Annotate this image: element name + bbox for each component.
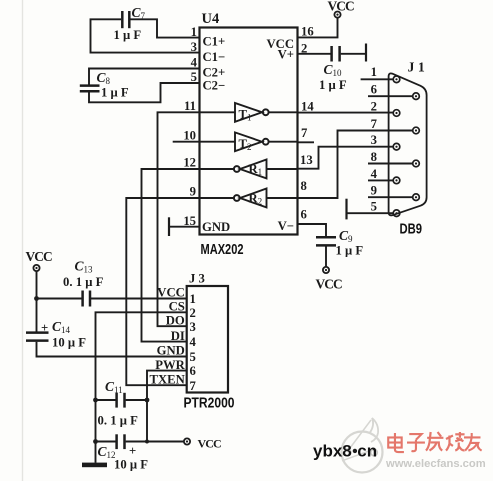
wire pin13 to DB9 pin3 [298, 147, 394, 169]
wire pin12 to J3 DI [142, 169, 200, 342]
svg-text:10 μ F: 10 μ F [114, 458, 148, 472]
DB9 pin 6 contact [413, 93, 420, 100]
svg-text:3: 3 [190, 320, 196, 334]
svg-text:1 μ F: 1 μ F [101, 86, 129, 100]
U4 pin label C1+ [203, 35, 226, 49]
C12 reference label [98, 444, 116, 460]
svg-text:J 3: J 3 [189, 272, 205, 286]
wire R2 input to pin8 [267, 197, 298, 199]
J3 pin number 3 [190, 320, 196, 334]
svg-text:T1: T1 [239, 108, 252, 123]
buffer T2 [235, 132, 269, 151]
receiver R2 [234, 189, 267, 208]
DB9 pin 2 contact [393, 110, 400, 117]
capacitor C12 [117, 434, 125, 449]
U4 pin label C2+ [203, 66, 226, 80]
pin number 5 [191, 70, 197, 84]
capacitor C7 [122, 11, 129, 28]
svg-text:ybx8: ybx8 [313, 442, 352, 461]
wire C9 to VCC terminal [325, 247, 327, 267]
svg-text:T2: T2 [239, 137, 252, 152]
svg-text:6: 6 [190, 364, 196, 378]
pin number 2 [301, 42, 307, 56]
junction node C11 left [93, 398, 98, 403]
svg-text:V+: V+ [278, 48, 294, 62]
svg-text:C9: C9 [339, 228, 353, 244]
svg-text:C2+: C2+ [203, 66, 226, 80]
DB9 pin 7 contact [413, 127, 420, 134]
svg-text:DI: DI [171, 329, 185, 343]
wire DB9 row 4 stub [368, 179, 393, 181]
svg-text:8: 8 [371, 150, 377, 164]
VCC terminal top [334, 12, 340, 18]
C13 reference label [75, 259, 94, 275]
DB9 pin 4 contact [393, 177, 400, 184]
DB9 row5 ground terminal bar [345, 199, 347, 220]
svg-text:7: 7 [301, 126, 308, 140]
svg-text:cn: cn [357, 442, 377, 461]
svg-text:7: 7 [190, 379, 197, 393]
svg-text:9: 9 [371, 184, 377, 198]
C14 polarity + [41, 321, 48, 335]
svg-text:10 μ F: 10 μ F [52, 336, 86, 350]
DB9 label [400, 221, 423, 238]
DB9 pin label 2 [371, 100, 377, 114]
capacitor C11 [117, 393, 125, 408]
svg-text:4: 4 [191, 56, 198, 70]
svg-text:C8: C8 [97, 70, 111, 86]
svg-text:6: 6 [371, 83, 377, 97]
VCC terminal below C9 [323, 267, 329, 273]
svg-text:VCC: VCC [316, 277, 343, 292]
pin number 9 [190, 185, 196, 199]
junction node C12 left [93, 439, 98, 444]
IC U4 MAX202 body [200, 28, 298, 235]
svg-text:1 μ F: 1 μ F [114, 28, 142, 42]
wire C7 to pin3 [91, 19, 200, 52]
wire DB9 row 8 stub [368, 163, 413, 165]
junction node C12 right [145, 440, 149, 444]
svg-text:13: 13 [300, 153, 313, 167]
VCC label left rail [26, 249, 53, 264]
svg-text:GND: GND [157, 344, 185, 358]
svg-text:C14: C14 [52, 319, 71, 335]
DB9 pin label 3 [371, 133, 377, 147]
C11 reference label [105, 379, 123, 395]
capacitor C10 [332, 46, 340, 62]
DB9 pin label 1 [371, 65, 377, 79]
R2 label [249, 192, 263, 207]
U4 pin label C1- [203, 50, 226, 64]
J3 pin number 5 [190, 350, 196, 364]
U4 pin label GND (pin15) [202, 220, 230, 234]
DB9 pin 3 contact [393, 143, 400, 150]
svg-text:R2: R2 [249, 192, 263, 207]
svg-text:4: 4 [190, 335, 197, 349]
C8 reference label [97, 70, 111, 86]
rail terminal bar right of C10 [365, 44, 367, 62]
svg-text:6: 6 [301, 208, 307, 222]
DB9 pin label 4 [371, 167, 378, 181]
capacitor C14 polarized [26, 333, 49, 341]
VCC terminal right of C12 [184, 438, 190, 444]
svg-text:C10: C10 [324, 62, 343, 78]
wire pin11 into T1 input [200, 111, 236, 113]
svg-text:3: 3 [371, 133, 377, 147]
C9 reference label [339, 228, 353, 244]
J3 pin name VCC [157, 286, 185, 300]
pin number 13 [300, 153, 313, 167]
U4 pin label V+ (pin2) [278, 48, 294, 62]
pin number 7 [301, 126, 308, 140]
wire pin6 to C9 [298, 224, 327, 236]
wire pin10 stub into T2 input [173, 141, 235, 143]
J3 pin number 6 [190, 364, 196, 378]
pin number 12 [183, 156, 196, 170]
wire pin11 to J3 DO [158, 112, 200, 326]
C8 value 1uF [101, 86, 129, 100]
wire C10 to rail terminal [341, 53, 366, 55]
J3 pin name GND [157, 344, 185, 358]
DB9 connector shell [389, 73, 427, 215]
C10 reference label [324, 62, 343, 78]
wire rail to C13 [37, 298, 82, 300]
svg-text:C13: C13 [75, 259, 94, 275]
wire pin1 to C7 [131, 19, 200, 37]
VCC label top [328, 0, 355, 14]
svg-text:U4: U4 [202, 11, 220, 27]
svg-text:C11: C11 [105, 379, 123, 395]
wire DB9 row 9 stub [368, 196, 413, 198]
pin15 terminal bar [168, 217, 170, 236]
svg-text:VCC: VCC [157, 286, 185, 300]
pin number 15 [183, 214, 196, 228]
wire pin4 to C8 [89, 69, 200, 85]
DB9 pin 9 contact [413, 194, 420, 201]
wire DB9 row 6 stub [368, 95, 413, 97]
wire pin16 to VCC [298, 18, 338, 38]
svg-text:J 1: J 1 [408, 60, 425, 75]
C14 reference label [52, 319, 71, 335]
svg-text:PTR2000: PTR2000 [184, 395, 235, 412]
pin number 1 [191, 25, 197, 39]
ground symbol [82, 463, 107, 468]
svg-text:2: 2 [190, 306, 196, 320]
svg-text:11: 11 [184, 99, 196, 113]
C11 value 0.1uF [98, 414, 139, 428]
wire DB9 row 1 stub [361, 78, 394, 80]
svg-text:VCC: VCC [328, 0, 355, 14]
J3 pin name CS [169, 300, 185, 314]
svg-text:16: 16 [301, 25, 314, 39]
C7 value 1uF [114, 28, 142, 42]
wire J3 PWR to C11/C12 node [147, 371, 187, 442]
svg-text:0. 1 μ F: 0. 1 μ F [63, 275, 104, 289]
watermark circle logo [342, 418, 383, 473]
pin number 8 [301, 179, 307, 193]
wire C14 to GND row [37, 342, 187, 357]
J1 reference label [408, 60, 425, 75]
wire pin7 stub [298, 141, 315, 143]
DB9 pin label 7 [371, 117, 378, 131]
svg-text:12: 12 [183, 156, 196, 170]
R1 label [249, 162, 263, 177]
svg-text:V−: V− [278, 219, 294, 233]
wire C8 to pin5 [89, 83, 200, 102]
junction node C11 right [145, 398, 150, 403]
svg-text:C12: C12 [98, 444, 116, 460]
svg-text:MAX202: MAX202 [201, 241, 244, 258]
wire C11 rail [96, 399, 148, 401]
VCC label right of C12 [198, 437, 222, 451]
svg-text:9: 9 [190, 185, 196, 199]
svg-text:1: 1 [190, 292, 196, 306]
wire CS to ground spine [96, 312, 187, 463]
svg-text:4: 4 [371, 167, 378, 181]
J3 pin name DO [166, 313, 185, 327]
wire T1 output to pin14 [269, 111, 298, 113]
svg-text:www.elecfans.com: www.elecfans.com [385, 458, 486, 470]
wire pin2 to C10 [298, 53, 331, 55]
T2 label [239, 137, 252, 152]
svg-text:C1+: C1+ [203, 35, 226, 49]
VCC terminal left rail [33, 265, 39, 271]
pin number 16 [301, 25, 314, 39]
DB9 pin label 5 [371, 200, 377, 214]
T1 label [239, 108, 252, 123]
svg-text:5: 5 [191, 70, 197, 84]
pin number 14 [301, 100, 314, 114]
svg-text:PWR: PWR [155, 358, 185, 372]
wire terminal to pin15 [169, 226, 200, 228]
pin number 3 [191, 40, 197, 54]
scan crease line [22, 0, 24, 481]
receiver R1 [234, 160, 267, 179]
VCC label below C9 [316, 277, 343, 292]
wire pin9 to J3 TXEN [126, 198, 199, 385]
capacitor C9 [316, 237, 336, 245]
svg-text:5: 5 [371, 200, 377, 214]
svg-text:0. 1 μ F: 0. 1 μ F [98, 414, 139, 428]
wire C12 rail [96, 441, 184, 443]
J3 pin number 7 [190, 379, 197, 393]
C12 polarity + [129, 444, 136, 458]
pin number 6 [301, 208, 307, 222]
wire pin14 to DB9 pin2 [298, 112, 394, 114]
svg-text:GND: GND [202, 220, 230, 234]
pin number 11 [184, 99, 196, 113]
junction node VCC/C13 [34, 296, 39, 301]
wire pin8 to DB9 pin7 [298, 131, 413, 199]
wire T2 output to pin7 [269, 141, 298, 143]
C10 value 1uF [319, 78, 347, 92]
DB9 pin 5 contact [393, 210, 400, 217]
pin number 4 [191, 56, 198, 70]
J3 pin name PWR [155, 358, 185, 372]
svg-text:DB9: DB9 [400, 221, 423, 238]
svg-text:8: 8 [301, 179, 307, 193]
svg-text:VCC: VCC [26, 249, 53, 264]
svg-text:+: + [129, 444, 136, 458]
DB9 pin label 9 [371, 184, 377, 198]
wire pin12 from R1 output [200, 168, 234, 170]
svg-text:VCC: VCC [198, 437, 222, 451]
C7 reference label [132, 5, 146, 21]
J3 pin name TXEN [150, 372, 185, 386]
elecfans logo text [388, 432, 481, 452]
svg-text:C1−: C1− [203, 50, 226, 64]
elecfans url text [385, 458, 486, 470]
DB9 pin label 8 [371, 150, 377, 164]
pin number 10 [183, 129, 196, 143]
DB9 pin 8 contact [413, 160, 420, 167]
svg-text:10: 10 [183, 129, 196, 143]
svg-text:1 μ F: 1 μ F [336, 244, 364, 258]
svg-text:2: 2 [371, 100, 377, 114]
svg-text:14: 14 [301, 100, 314, 114]
MAX202 value label [201, 241, 244, 258]
wire R1 input to pin13 [267, 168, 298, 170]
capacitor C8 [80, 86, 100, 92]
U4 pin label V- (pin6) [278, 219, 294, 233]
svg-text:7: 7 [371, 117, 378, 131]
J3 pin name DI [171, 329, 185, 343]
svg-text:C2−: C2− [203, 79, 226, 93]
watermark text ybx8 [313, 442, 352, 461]
wire VCC rail down [36, 271, 38, 332]
svg-text:DO: DO [166, 313, 185, 327]
svg-text:5: 5 [190, 350, 196, 364]
U4 pin label C2- [203, 79, 226, 93]
buffer T1 [235, 103, 269, 122]
wire pin9 from R2 output [200, 197, 234, 199]
svg-text:C7: C7 [132, 5, 146, 21]
wire DB9 row 5 [347, 212, 394, 214]
watermark text cn [357, 442, 377, 461]
J3 pin number 2 [190, 306, 196, 320]
U4 pin label VCC (pin16) [267, 37, 295, 51]
capacitor C13 [83, 291, 90, 307]
svg-text:TXEN: TXEN [150, 372, 185, 386]
PTR2000 label [184, 395, 235, 412]
C9 value 1uF [336, 244, 364, 258]
svg-text:1 μ F: 1 μ F [319, 78, 347, 92]
C14 value 10uF [52, 336, 86, 350]
C12 value 10uF [114, 458, 148, 472]
watermark dark dot [353, 449, 357, 453]
U4 reference label [202, 11, 220, 27]
svg-text:1: 1 [371, 65, 377, 79]
C13 value 0.1uF [63, 275, 104, 289]
DB9 pin label 6 [371, 83, 377, 97]
svg-text:R1: R1 [249, 162, 263, 177]
J3 pin number 4 [190, 335, 197, 349]
DB9 pin 1 contact [393, 76, 400, 83]
connector J3 body [187, 286, 228, 393]
J3 pin number 1 [190, 292, 196, 306]
J3 reference label [189, 272, 205, 286]
wire C13 to J3 VCC pin [91, 298, 187, 300]
svg-text:CS: CS [169, 300, 185, 314]
